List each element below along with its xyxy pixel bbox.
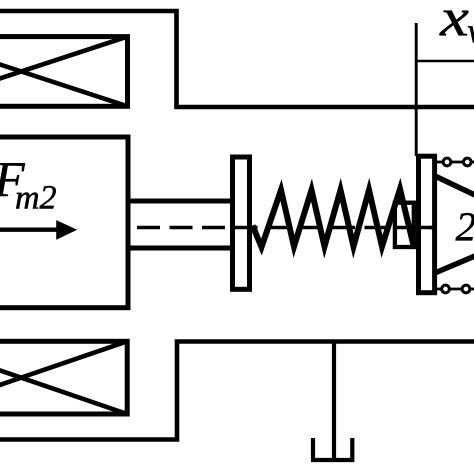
armature (large moving body) — [0, 137, 128, 308]
dashed centerline — [133, 226, 436, 229]
link: plate to bottom hinge — [437, 288, 443, 291]
label F — [0, 163, 25, 196]
dimension line xv horizontal — [416, 60, 474, 63]
coil L2 diagonal 2 — [0, 341, 127, 414]
link: plate to top hinge — [437, 161, 444, 164]
label m2 subscript — [16, 186, 56, 209]
hinge circle top 1 — [443, 158, 451, 166]
wire: upper yoke outline (top-left elbow to right) — [0, 11, 474, 107]
flange (left spring seat) — [233, 157, 250, 289]
hinge circle top 2 — [463, 158, 471, 166]
force arrow Fm2 shaft — [0, 227, 58, 231]
dimension reference line xv vertical — [415, 23, 418, 156]
spring (zigzag) — [253, 189, 415, 248]
coil L1 diagonal 2 — [0, 37, 128, 107]
flapper lower diagonal — [436, 256, 474, 273]
flapper upper diagonal — [436, 177, 474, 196]
label v subscript — [468, 26, 474, 42]
push rod bottom edge — [128, 246, 233, 251]
coil L1 (upper coil box) — [0, 37, 128, 107]
hinge circle bottom 2 — [462, 285, 470, 293]
spool plate (right spring seat) — [419, 156, 435, 293]
label x — [439, 11, 468, 36]
wire: lower yoke outline (bottom-left elbow to right) — [0, 342, 474, 440]
coil L1 diagonal 1 — [0, 37, 128, 107]
link: top hinge 1 to 2 — [451, 161, 464, 164]
link: bottom hinge 2 to edge — [470, 288, 474, 291]
coil L2 (lower coil box) — [0, 341, 127, 414]
damper rod — [332, 342, 336, 459]
link: top hinge 2 to edge — [471, 161, 474, 164]
coil L2 diagonal 1 — [0, 341, 127, 414]
label 2 — [456, 213, 474, 240]
force arrow Fm2 head — [57, 221, 77, 240]
plate divider line — [416, 226, 437, 229]
push rod top edge — [128, 199, 233, 204]
hinge circle bottom 1 — [442, 285, 450, 293]
spring retainer block — [395, 203, 414, 247]
damper cup — [313, 438, 352, 460]
link: bottom hinge 1 to 2 — [449, 288, 462, 291]
